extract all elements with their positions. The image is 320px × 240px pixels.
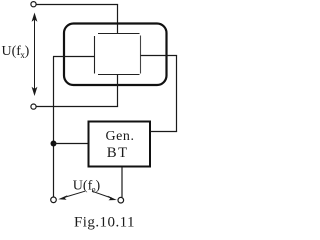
terminal T3 (bottom left output) <box>51 197 57 203</box>
wire right vertical down to generator level <box>176 56 178 132</box>
wire crystal left electrode lead horizontal <box>53 56 95 58</box>
svg-text:U(fx): U(fx) <box>2 44 30 60</box>
dimension arrow U(fx) double headed <box>32 13 38 97</box>
arrow right toward T4 <box>92 191 117 200</box>
wire top horizontal from T1 to crystal top lead <box>37 4 119 6</box>
svg-text:BT: BT <box>107 145 129 161</box>
svg-text:Gen.: Gen. <box>106 129 135 144</box>
quartz crystal BT bottom plate <box>98 74 140 76</box>
thermostat oven enclosure (rounded box) <box>64 24 167 86</box>
terminal T4 (bottom right output) <box>118 197 124 203</box>
arrow left toward T3 <box>58 191 85 200</box>
terminal T1 (top left input) <box>31 2 36 7</box>
wire crystal right electrode lead horizontal <box>141 55 178 57</box>
svg-text:Fig.10.11: Fig.10.11 <box>74 215 135 231</box>
quartz crystal BT left electrode <box>94 36 96 74</box>
wire node A to generator left <box>54 143 89 145</box>
quartz crystal BT right electrode <box>140 36 142 74</box>
terminal T2 (lower left of U(fx) pair) <box>31 104 36 109</box>
wire generator bottom to terminal T4 <box>121 167 123 197</box>
wire bottom lead to terminal T2 <box>37 106 119 108</box>
generator box Gen. BT <box>89 122 151 167</box>
quartz crystal BT top plate <box>98 33 140 35</box>
junction dot node A <box>51 141 57 147</box>
wire crystal bottom lead vertical <box>117 75 119 107</box>
wire left vertical bus down to terminal T3 <box>53 57 55 197</box>
wire crystal top lead vertical <box>117 5 119 34</box>
wire into generator right side <box>151 131 178 133</box>
svg-text:U(fe): U(fe) <box>73 179 101 195</box>
